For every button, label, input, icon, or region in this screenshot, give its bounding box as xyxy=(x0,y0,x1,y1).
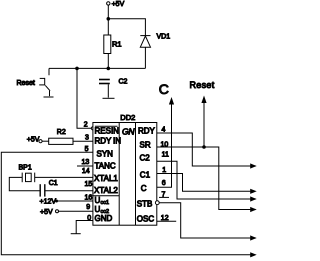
svg-text:DD2: DD2 xyxy=(120,113,135,122)
svg-text:13: 13 xyxy=(82,159,90,166)
wire crystal left loop xyxy=(9,177,40,190)
svg-text:+5V: +5V xyxy=(40,209,53,216)
svg-text:TANC: TANC xyxy=(95,161,116,170)
node +12V terminal xyxy=(55,200,58,203)
svg-text:16: 16 xyxy=(85,194,93,201)
svg-text:C2: C2 xyxy=(119,78,128,85)
node junction top xyxy=(107,17,111,21)
svg-text:R2: R2 xyxy=(57,129,66,136)
node +5V terminal at pin 9 xyxy=(56,210,59,213)
resistor R2 xyxy=(49,138,73,144)
node junction Reset/SR xyxy=(202,145,206,149)
svg-text:XTAL1: XTAL1 xyxy=(94,174,118,183)
svg-text:+12V: +12V xyxy=(40,199,57,206)
button SB top contact xyxy=(48,68,50,75)
wire C1 arrowhead xyxy=(250,189,257,194)
svg-text:RDY IN: RDY IN xyxy=(95,136,122,145)
svg-text:GND: GND xyxy=(95,214,113,223)
wire TANC stub xyxy=(77,165,93,167)
op-amp U1 chip DD2 outline xyxy=(93,123,157,226)
wire button to node xyxy=(49,67,108,69)
ground under button xyxy=(44,96,54,98)
svg-text:C: C xyxy=(159,81,169,97)
svg-text:Reset: Reset xyxy=(17,80,35,87)
wire SR pin10 xyxy=(157,147,251,210)
svg-text:SR: SR xyxy=(140,141,151,150)
pin label RESIN overline xyxy=(95,125,118,127)
wire +5V down xyxy=(107,5,109,68)
capacitor C2 xyxy=(99,80,110,98)
wire STB arrowhead xyxy=(250,235,257,240)
svg-text:Reset: Reset xyxy=(190,80,215,90)
wire R2 to pin 3 xyxy=(73,140,93,142)
svg-text:RDY: RDY xyxy=(138,127,156,136)
wire Reset arrow up xyxy=(203,103,205,148)
svg-text:0: 0 xyxy=(87,215,91,222)
svg-text:9: 9 xyxy=(86,204,90,211)
wire top branch to VD1 xyxy=(108,19,145,36)
svg-text:RESIN: RESIN xyxy=(95,127,120,136)
wire STB stray segment xyxy=(159,196,169,198)
wire C1 pin1 to arrow xyxy=(157,174,251,192)
wire RDY pin4 to arrow xyxy=(157,133,251,166)
ground under GND pin xyxy=(71,233,81,235)
button SB bottom contact xyxy=(49,91,51,96)
node junction R1/C2/VD1 xyxy=(107,67,111,71)
button SB movable contact xyxy=(45,85,50,90)
ground under C2 xyxy=(103,97,115,99)
button SB actuator xyxy=(39,78,45,86)
pin 2 bubble xyxy=(91,127,94,130)
svg-text:C1: C1 xyxy=(140,170,151,179)
resistor R1 xyxy=(104,35,111,54)
wire C2 arrowhead xyxy=(250,196,257,201)
svg-text:6: 6 xyxy=(162,180,166,187)
diode VD1 xyxy=(108,36,150,69)
svg-text:4: 4 xyxy=(162,126,166,133)
wire C arrowhead xyxy=(169,97,174,105)
capacitor C1 xyxy=(40,184,45,196)
svg-text:SYN: SYN xyxy=(97,150,114,159)
wire RESIN net xyxy=(77,68,91,128)
svg-text:STB: STB xyxy=(137,200,153,209)
wire +12V to pin 16 xyxy=(57,200,93,202)
wire Reset arrowhead xyxy=(201,96,206,104)
pin 7 bubble STB xyxy=(155,201,159,205)
wire RDY arrowhead xyxy=(250,163,257,168)
svg-text:+5V: +5V xyxy=(27,137,40,144)
wire XTAL2 net xyxy=(45,190,93,192)
svg-text:GN: GN xyxy=(122,127,135,137)
wire SYN long route xyxy=(1,152,251,255)
wire SR arrowhead xyxy=(250,207,257,212)
wire C pin6 to up arrow xyxy=(157,104,172,187)
wire STB pin7 to arrow xyxy=(159,203,251,238)
wire SYN arrowhead xyxy=(250,252,257,257)
svg-text:15: 15 xyxy=(85,181,93,188)
wire OSC pin12 stub xyxy=(157,220,176,222)
svg-text:5: 5 xyxy=(85,146,89,153)
wire +5V to pin 9 xyxy=(59,210,93,212)
svg-text:OSC: OSC xyxy=(137,215,155,224)
svg-text:cc1: cc1 xyxy=(101,200,110,206)
svg-text:XTAL2: XTAL2 xyxy=(94,186,118,195)
svg-text:C1: C1 xyxy=(49,180,58,187)
node +5V terminal top xyxy=(107,2,110,5)
svg-text:C2: C2 xyxy=(140,154,151,163)
node +5V terminal at R2 xyxy=(39,140,42,143)
crystal BP1 xyxy=(22,173,35,183)
node junction at reset branch xyxy=(75,67,79,71)
svg-text:BP1: BP1 xyxy=(19,164,32,171)
svg-text:11: 11 xyxy=(162,151,169,158)
wire C2 pin11 to arrow xyxy=(157,161,251,199)
svg-text:14: 14 xyxy=(82,168,90,175)
svg-text:R1: R1 xyxy=(112,40,122,49)
wire R2 left xyxy=(42,140,49,142)
wire XTAL1 net xyxy=(35,176,93,178)
wire GND net xyxy=(76,221,93,234)
svg-text:2: 2 xyxy=(84,122,88,129)
svg-text:C: C xyxy=(141,184,147,193)
svg-text:3: 3 xyxy=(85,135,89,142)
svg-text:+5V: +5V xyxy=(112,1,125,8)
svg-text:1: 1 xyxy=(162,167,166,174)
svg-text:VD1: VD1 xyxy=(157,34,171,41)
